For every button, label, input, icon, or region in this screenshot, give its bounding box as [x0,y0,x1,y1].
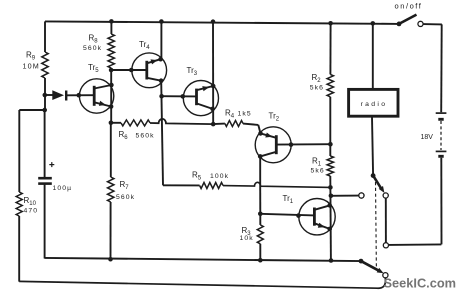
node Tr1 base tap [258,212,263,217]
wire left branch from node A to R10 column [19,110,44,192]
transistor Tr2 base exit dot [289,142,294,147]
transistor Tr2 collector [260,152,276,157]
terminal S1a right contact [383,193,388,198]
transistor Tr4 base entry dot [129,68,134,73]
wire top supply rail [45,21,399,24]
transistor Tr3 circle [183,81,218,116]
node Tr3 base tap [159,94,164,99]
switch S1b arm [361,261,380,271]
label R1 value 5k6 [311,168,325,175]
transistor Tr1 emitter arrow [318,223,325,228]
resistor R4 lead right [243,124,261,134]
terminal battery return circle [383,243,388,248]
label R2 value 5k6 [310,85,324,92]
transistor Tr4 base bar [145,61,148,80]
svg-text:SeekIC.com: SeekIC.com [384,276,457,291]
resistor R8 [108,34,114,68]
wire battery return [389,243,442,246]
resistor R10 [16,192,22,216]
resistor R3 [257,225,263,244]
label R10 value 470 [24,208,39,215]
resistor R5 lead left [163,184,200,186]
label R4 [225,109,235,120]
transistor Tr3 emitter arrow [202,86,209,91]
label R8 value 560k [83,45,102,52]
wire S1a contact down [385,198,387,242]
transistor Tr4 collector [147,78,161,81]
transistor Tr2 emitter [261,133,277,137]
transistor Tr2 emitter arrow [265,133,272,138]
transistor Tr4 circle [132,53,167,88]
label R6 [119,130,129,141]
transistor Tr1 collector dot [327,203,332,208]
resistor R6 lead [111,122,121,124]
wire bottom emitter rail [45,258,362,261]
transistor Tr4 emitter [147,59,161,63]
svg-text:10M: 10M [23,62,40,71]
label C1 value 100µ [53,185,73,192]
capacitor C1 bottom plate [38,182,52,185]
label R7 value 560k [116,194,135,201]
wire Tr3 base [162,95,197,97]
transistor Tr5 circle [79,79,113,113]
wire left column top [44,21,46,52]
svg-text:470: 470 [24,208,39,215]
label R9 value 10M [23,62,40,71]
label on/off [395,1,423,10]
watermark SeekIC.com [384,276,457,291]
label battery 18V [421,134,434,141]
transistor Tr5 base bar [93,86,96,106]
node R8 top rail [109,19,114,24]
wire R8 column top [110,21,112,34]
label Tr5 [88,63,99,74]
transistor Tr1 base entry dot [296,213,301,218]
wire on/off to battery [423,23,442,25]
transistor Tr5 emitter arrow [99,101,106,106]
wire Tr2 collector column lower [259,186,261,214]
wire R3 bottom lead [259,244,261,260]
resistor R5 lead right [223,182,330,187]
resistor R7 [108,177,114,202]
transistor Tr5 emitter dot [109,104,114,109]
resistor R2 [327,74,333,96]
wire output [331,195,359,197]
svg-text:560k: 560k [116,194,135,201]
transistor Tr5 collector dot [109,83,114,88]
capacitor C1 top plate [38,177,52,180]
switch on/off pivot dot [397,22,402,27]
label R8 [89,34,99,45]
svg-text:560k: 560k [83,45,102,52]
resistor R4 [225,121,243,127]
battery plate long bottom [436,150,447,152]
transistor Tr3 emitter dot [211,84,216,89]
transistor Tr3 collector bottom [197,103,213,109]
dashed gang link [375,182,378,270]
label R5 value 100k [210,173,229,180]
terminal output circle [359,193,364,198]
wire R2-R1 link [329,97,331,156]
svg-text:100k: 100k [210,173,229,180]
label Tr1 [283,194,294,205]
svg-text:100µ: 100µ [53,185,73,192]
resistor R5 [200,183,223,189]
node A [42,108,47,113]
node Tr2 base junction [328,142,333,147]
wire radio bottom lead [372,117,373,176]
battery plate short bottom [438,155,443,158]
node Tr1 column rail [329,258,334,263]
transistor Tr3 base bar [195,89,198,106]
switch S1b arrow [377,268,384,273]
resistor R4 lead [213,123,225,126]
label Tr4 [139,40,150,51]
resistor R1 [327,156,333,176]
wire battery bottom lead [440,158,442,245]
wire R7 column [110,123,112,259]
node R5 junction [328,185,333,190]
node R3 bottom rail [258,258,263,263]
transistor Tr2 emitter dot [258,131,263,136]
wire R1 bottom link [329,176,332,261]
wire battery top lead [440,24,443,112]
label radio [361,101,388,108]
node Tr4 base tap [109,68,114,73]
wire Tr2 collector column upper [259,156,261,186]
transistor Tr1 emitter [314,223,329,229]
svg-text:10k: 10k [240,235,254,242]
label R3 [242,226,252,237]
terminal on/off contact [418,21,423,26]
wire capacitor bottom lead [44,185,46,259]
wire Tr4 column [161,22,163,186]
resistor R9 [42,52,48,78]
node Tr4 column rail [159,19,164,24]
transistor Tr4 collector dot [159,78,164,83]
wire Tr4 base [111,69,147,71]
node R7 bottom rail [108,257,113,262]
label R6 value 560k [136,132,155,139]
svg-text:18V: 18V [421,134,434,141]
label R4 value 1k5 [238,111,252,118]
wire bottom ground rail [19,278,385,288]
node output junction [329,194,334,199]
transistor Tr4 emitter arrow [151,59,158,64]
resistor R6 [121,120,150,126]
transistor Tr5 base entry dot [77,93,82,98]
transistor Tr2 base lead [276,143,330,145]
svg-text:560k: 560k [136,132,155,139]
node Tr3 column rail [211,19,216,24]
battery dashed middle [440,121,442,150]
terminal S1b contact [383,273,388,278]
switch on/off blade [399,15,417,24]
transistor Tr1 circle [299,199,335,235]
svg-text:5k6: 5k6 [310,85,324,92]
switch S1a arrow [379,186,385,193]
transistor Tr4 emitter dot [158,57,163,62]
node R4 junction [211,122,216,127]
wire R2 column top [329,23,331,74]
node diode tap [43,93,48,98]
transistor Tr1 base bar [313,208,316,226]
wire R8 column mid [110,68,112,123]
label R5 [192,171,202,182]
label R2 [312,73,322,84]
svg-text:1k5: 1k5 [238,111,252,118]
label R7 [120,180,130,191]
transistor Tr2 collector dot [258,154,263,159]
transistor Tr5 emitter [94,102,111,106]
wire left column mid [44,78,46,111]
label R1 [312,157,322,168]
resistor R6 lead right [150,119,213,124]
label Tr2 [269,112,280,123]
diode D1 [45,90,94,100]
box radio [349,89,398,116]
transistor Tr3 collector dot [210,107,215,112]
transistor Tr5 collector [94,85,111,89]
wire R10 column lower [18,216,20,282]
battery plate long top [436,112,447,114]
transistor Tr1 emitter dot [327,227,332,232]
label R3 value 10k [240,235,254,242]
capacitor C1 plus sign [49,162,54,167]
label R10 [24,196,37,207]
wire R3 top lead [259,214,261,225]
wire Tr3 column [212,22,214,124]
transistor Tr3 emitter top [197,86,214,90]
node radio rail [371,21,376,26]
label R9 [26,51,36,62]
svg-text:radio: radio [361,101,388,108]
transistor Tr2 base bar [275,135,278,154]
terminal S1a left contact [359,193,364,198]
svg-text:on/off: on/off [395,1,423,10]
transistor Tr3 base entry dot [181,94,186,99]
switch S1a pivot dot [371,173,376,178]
label Tr3 [187,66,198,77]
svg-text:5k6: 5k6 [311,168,325,175]
wire Tr1 base [260,214,314,216]
switch S1b pivot dot [359,259,364,264]
switch S1a arm [373,176,382,190]
node R2 top rail [328,21,333,26]
wire radio top lead [372,23,374,89]
node R6 junction [109,121,114,126]
wire capacitor top lead [44,110,46,177]
battery plate short top [438,118,443,121]
transistor Tr1 collector [314,205,329,209]
transistor Tr2 circle [255,127,291,163]
